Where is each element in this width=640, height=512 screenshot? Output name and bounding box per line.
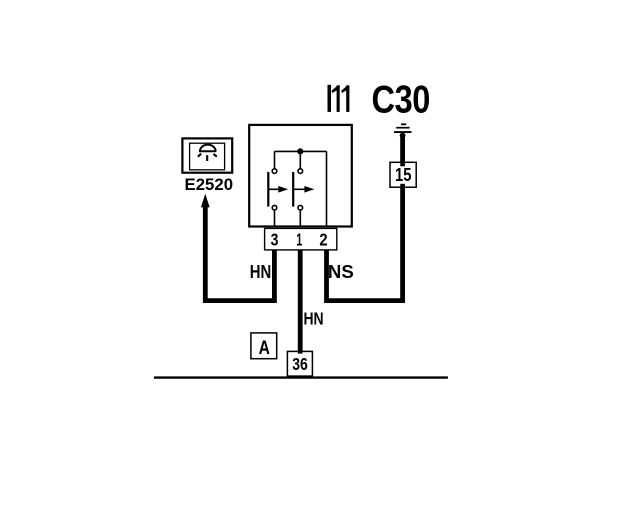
svg-text:36: 36 [292, 356, 308, 375]
svg-text:HN: HN [250, 261, 271, 282]
svg-text:3: 3 [271, 230, 279, 250]
svg-text:15: 15 [395, 164, 411, 185]
svg-text:A: A [259, 336, 270, 358]
svg-text:E2520: E2520 [185, 175, 234, 194]
svg-text:1: 1 [296, 231, 302, 250]
svg-text:2: 2 [319, 230, 327, 250]
svg-text:NS: NS [328, 261, 354, 282]
svg-text:C30: C30 [372, 78, 430, 121]
svg-text:HN: HN [304, 310, 324, 329]
